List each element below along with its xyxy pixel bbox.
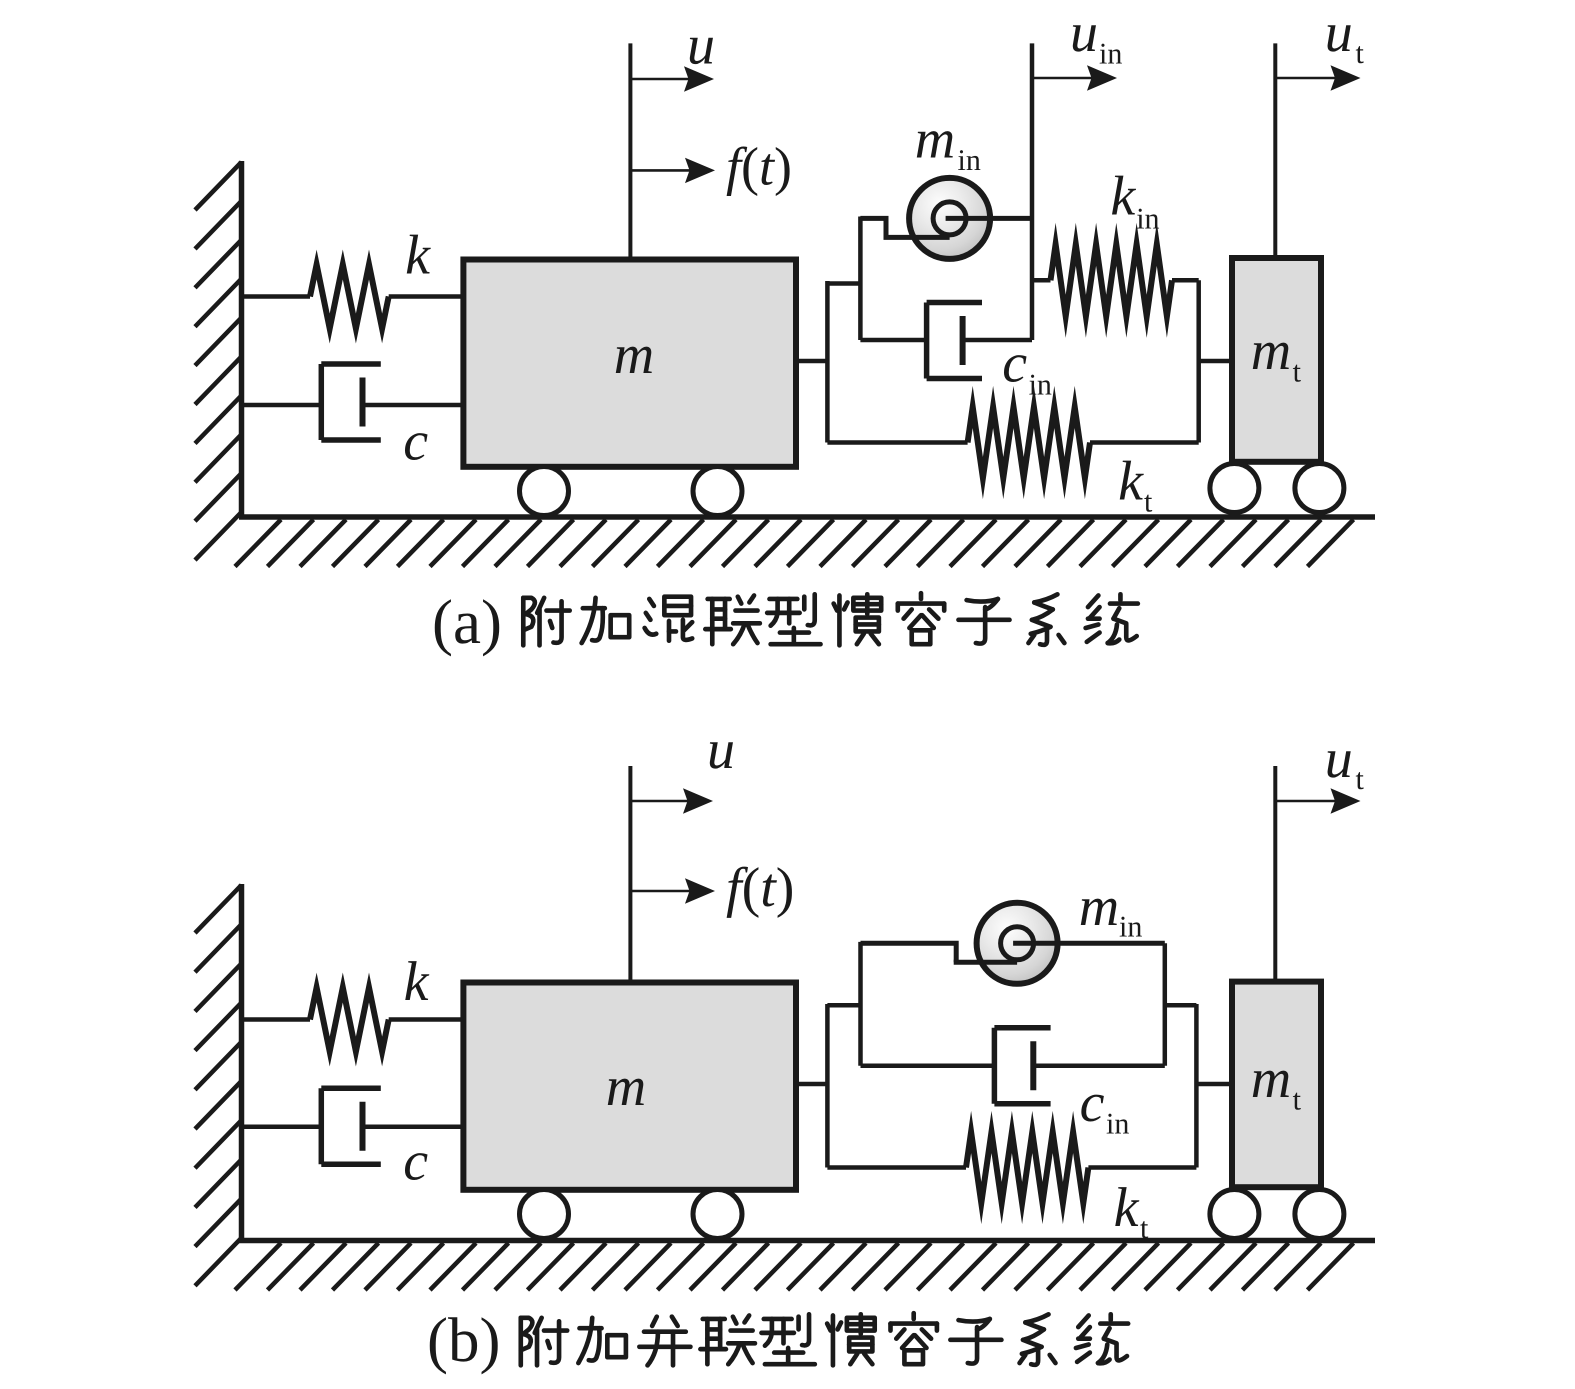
wall hatching (b) [195, 885, 242, 933]
wire k_t to right node (b) [1088, 1165, 1196, 1170]
outer right vertical node (a) [1196, 280, 1201, 442]
caption char lian [705, 595, 760, 644]
arrow f(t) (b) [630, 890, 691, 893]
spring k_t (a) zigzag [968, 407, 1090, 478]
spring k_t (b) wire from left node [827, 1165, 966, 1170]
caption char xing [767, 594, 820, 644]
ground line (b) [239, 1238, 1375, 1244]
wire spring k to mass (b) [389, 1017, 464, 1022]
svg-text:in: in [958, 144, 981, 177]
svg-text:u: u [1070, 2, 1098, 64]
arrow u_t (b) [1275, 800, 1336, 803]
wheels of m (b) [520, 1190, 569, 1239]
caption char jia [582, 598, 630, 643]
caption char rong [891, 1313, 937, 1364]
spring k_t (a) wire from left node [827, 440, 967, 445]
ground hatching (a) [235, 520, 281, 567]
arrow u (a) [630, 78, 690, 81]
damper c (a) rod to mass [363, 403, 464, 408]
damper c_in (a) rod [963, 338, 1032, 343]
caption char fu [523, 598, 569, 646]
svg-text:m: m [1251, 320, 1291, 382]
inerter bracket tangent [954, 960, 1017, 965]
spring k (b) wire [242, 1017, 311, 1022]
svg-text:u: u [687, 15, 715, 77]
wire mass m to subsystem (b) [796, 1082, 827, 1087]
wheels of m (a) [520, 467, 569, 516]
damper c_in (b) cup and piston [992, 1028, 998, 1104]
svg-text:k: k [405, 225, 431, 287]
spring k_in (a) zigzag [1051, 244, 1173, 316]
damper c_in (b) rod [1033, 1063, 1165, 1068]
wall (a) [239, 161, 245, 517]
svg-text:c: c [403, 411, 428, 473]
ground line (a) [239, 514, 1375, 520]
svg-text:k: k [1118, 451, 1144, 513]
wire inner box to right node (b) [1165, 1003, 1197, 1008]
svg-text:(a): (a) [432, 587, 502, 657]
damper c_in (a) cup and piston [924, 303, 930, 379]
svg-text:t: t [1293, 356, 1302, 389]
caption char hun [645, 597, 693, 641]
wheels of m_t (b) [1210, 1190, 1259, 1239]
svg-text:in: in [1106, 1108, 1129, 1141]
inerter bracket tangent [884, 235, 950, 240]
damper c (b) wire [242, 1124, 322, 1129]
caption char tong [1076, 1314, 1128, 1363]
caption char rong [898, 593, 944, 644]
caption char xi [1028, 594, 1064, 645]
outer right vertical node (b) [1194, 1004, 1199, 1168]
svg-text:in: in [1029, 368, 1052, 401]
svg-text:c: c [403, 1131, 428, 1193]
inner box right vertical (b) [1163, 943, 1168, 1065]
svg-text:m: m [915, 109, 955, 171]
caption char xing [761, 1314, 814, 1364]
svg-text:f(t): f(t) [726, 857, 794, 919]
svg-text:t: t [1293, 1084, 1302, 1117]
wire k_t to right node (a) [1090, 440, 1199, 445]
wire right node to m_t (b) [1196, 1082, 1232, 1087]
measurement line u_in (a) [1030, 43, 1035, 340]
svg-text:m: m [1079, 876, 1119, 938]
caption char fu [521, 1318, 567, 1366]
wire mass m to subsystem (a) [796, 359, 827, 364]
svg-text:m: m [614, 324, 654, 386]
svg-text:in: in [1136, 203, 1159, 236]
svg-text:(b): (b) [427, 1305, 500, 1375]
svg-text:m: m [606, 1056, 646, 1118]
inerter shaft [946, 216, 1032, 221]
ground hatching (b) [235, 1243, 281, 1290]
caption char jia [578, 1318, 626, 1363]
svg-text:in: in [1119, 911, 1142, 944]
caption char xi [1020, 1314, 1056, 1365]
arrow u_in (a) [1032, 77, 1093, 80]
svg-text:m: m [1251, 1048, 1291, 1110]
measurement line u_t (b) [1273, 766, 1277, 982]
inner box left vertical (a) [858, 217, 863, 341]
mass m_t (a) [1232, 258, 1321, 462]
damper c (b) cup and piston [319, 1088, 325, 1164]
spring k_in (a) stub [1032, 278, 1051, 283]
caption char guan [827, 1314, 875, 1365]
inerter bracket [861, 943, 957, 962]
svg-text:u: u [707, 719, 735, 781]
inerter shaft [1013, 941, 1165, 946]
inerter bracket [860, 218, 886, 237]
caption char zi [950, 1319, 1001, 1364]
inerter flywheel ball [977, 903, 1058, 984]
svg-text:c: c [1002, 333, 1027, 395]
inerter flywheel ball [909, 178, 990, 259]
inerter top branch wire (b) [861, 941, 871, 946]
damper c_in (a) wire from inner-left [860, 338, 926, 343]
damper c_in (b) wire from inner-left [861, 1063, 995, 1068]
svg-text:in: in [1099, 38, 1122, 71]
svg-text:k: k [1110, 166, 1136, 228]
wire spring k to mass m (a) [389, 294, 464, 299]
damper c (a) : wire wall to cup [242, 403, 322, 408]
spring k (a) : wire wall to spring [242, 294, 311, 299]
svg-text:f(t): f(t) [726, 137, 792, 197]
wall (b) [239, 884, 245, 1241]
caption char guan [834, 594, 882, 645]
damper c (b) rod [363, 1124, 464, 1129]
svg-text:u: u [1325, 728, 1353, 790]
wire k_in to right node (a) [1172, 278, 1199, 283]
measurement line u_t (a) [1273, 43, 1277, 258]
caption char bing [639, 1317, 690, 1366]
svg-text:k: k [1114, 1177, 1140, 1239]
wheels of m_t (a) [1210, 464, 1259, 513]
wire right node to m_t (a) [1199, 359, 1232, 364]
spring k (a) zigzag [310, 265, 389, 329]
mass m_t (b) [1232, 982, 1321, 1188]
outer left vertical node (a) [825, 281, 830, 443]
svg-text:t: t [1356, 37, 1365, 70]
caption char zi [958, 599, 1009, 644]
caption char tong [1086, 594, 1138, 643]
inner box left vertical (b) [858, 942, 863, 1066]
svg-text:u: u [1325, 2, 1353, 64]
svg-text:k: k [404, 951, 430, 1013]
svg-text:t: t [1356, 763, 1365, 796]
spring k (b) zigzag [310, 988, 389, 1052]
wall hatching (a) [195, 162, 242, 210]
svg-text:t: t [1140, 1212, 1149, 1245]
arrow u_t (a) [1275, 77, 1336, 80]
damper c (a) cup and piston [319, 364, 325, 440]
measurement line u (a) [628, 43, 632, 259]
wire to inner box left (a) [827, 281, 860, 286]
arrow f(t) (a) [630, 169, 691, 172]
caption char lian [700, 1315, 755, 1364]
svg-text:c: c [1080, 1072, 1105, 1134]
mass m (a) [463, 260, 796, 467]
svg-text:t: t [1144, 486, 1153, 519]
outer left vertical node (b) [825, 1004, 830, 1168]
spring k_t (b) zigzag [966, 1132, 1088, 1203]
measurement line u (b) [628, 766, 632, 983]
wire to inner box left (b) [827, 1003, 860, 1008]
arrow u (b) [630, 800, 689, 803]
mass m (b) [463, 983, 796, 1190]
